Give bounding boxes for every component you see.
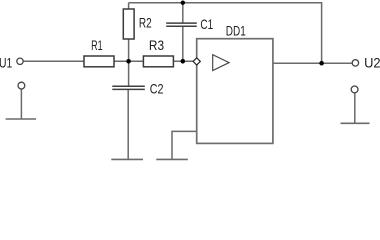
svg-text:U1: U1	[0, 55, 12, 70]
svg-text:C2: C2	[150, 81, 164, 96]
svg-text:R2: R2	[139, 16, 152, 31]
svg-text:R1: R1	[91, 38, 103, 53]
svg-text:R3: R3	[149, 38, 164, 53]
svg-text:DD1: DD1	[226, 24, 246, 39]
svg-text:C1: C1	[200, 17, 213, 32]
svg-text:U2: U2	[364, 55, 380, 70]
